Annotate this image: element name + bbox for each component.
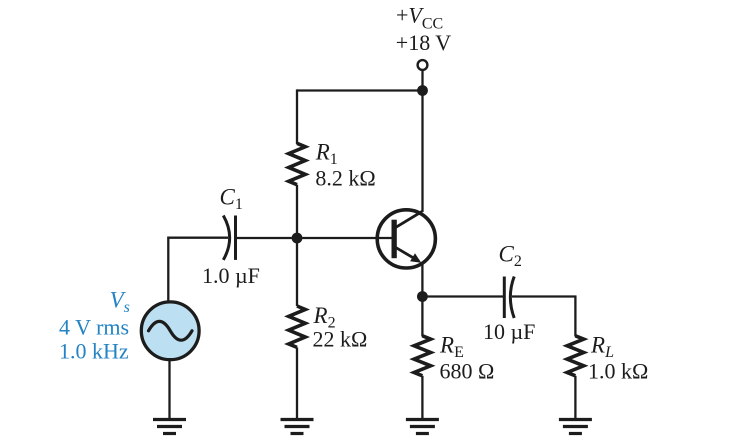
wire: collector up to rail	[421, 91, 423, 213]
wire: source top corner to C1	[168, 238, 228, 301]
node: junction dot at top rail / collector	[417, 85, 428, 96]
svg-text:4 V rms: 4 V rms	[59, 315, 129, 340]
ground (RE branch)	[406, 420, 439, 434]
transistor Q1 base bar	[392, 220, 397, 259]
terminal +Vcc (open circle)	[418, 60, 428, 70]
ground (R2 branch)	[281, 420, 314, 434]
resistor RE zigzag	[414, 336, 431, 376]
svg-text:1.0 kHz: 1.0 kHz	[59, 339, 129, 364]
source Vs circle	[141, 302, 199, 360]
wire: left branch vertical, rail to R1	[296, 89, 298, 144]
ground (RL branch)	[559, 420, 592, 434]
wire: emitter down to emitter node	[421, 263, 423, 297]
wire: C2 to RL corner	[512, 297, 575, 337]
svg-text:+18 V: +18 V	[396, 30, 452, 55]
node: emitter junction dot	[417, 291, 428, 302]
capacitor C1 curved plate	[223, 216, 229, 260]
wire: Vcc terminal to top rail	[421, 70, 423, 91]
wire: RE to ground	[421, 376, 423, 419]
wire: source to ground	[168, 360, 170, 419]
transistor Q1 circle	[377, 210, 435, 268]
source sine wave	[149, 321, 193, 340]
capacitor C2 curved plate	[510, 277, 514, 319]
wire: RL to ground	[574, 376, 576, 419]
capacitor C1 straight plate	[234, 216, 237, 260]
transistor Q1 emitter lead with arrow	[395, 247, 419, 261]
capacitor C2 straight plate	[503, 277, 506, 319]
svg-text:680 Ω: 680 Ω	[440, 358, 495, 383]
node: base junction dot	[292, 233, 303, 244]
svg-text:10 µF: 10 µF	[483, 319, 535, 344]
svg-text:22 kΩ: 22 kΩ	[313, 327, 368, 352]
wire: C1 to base node and on to transistor base	[236, 237, 393, 239]
ground (source branch)	[153, 420, 186, 434]
resistor R1 zigzag	[289, 143, 306, 184]
transistor Q1 collector lead	[395, 212, 422, 228]
svg-text:1.0 kΩ: 1.0 kΩ	[588, 358, 648, 383]
wire: top rail from R1 branch to Vcc node	[297, 89, 423, 91]
wire: emitter node down to RE	[421, 297, 423, 337]
resistor RL zigzag	[567, 336, 584, 376]
wire: emitter node to C2	[422, 295, 504, 297]
resistor R2 zigzag	[289, 306, 306, 347]
wire: base node down to R2	[296, 238, 298, 306]
wire: R2 to ground	[296, 347, 298, 418]
svg-text:8.2 kΩ: 8.2 kΩ	[315, 166, 375, 191]
svg-text:1.0 µF: 1.0 µF	[202, 263, 260, 288]
wire: R1 to base node	[296, 185, 298, 238]
